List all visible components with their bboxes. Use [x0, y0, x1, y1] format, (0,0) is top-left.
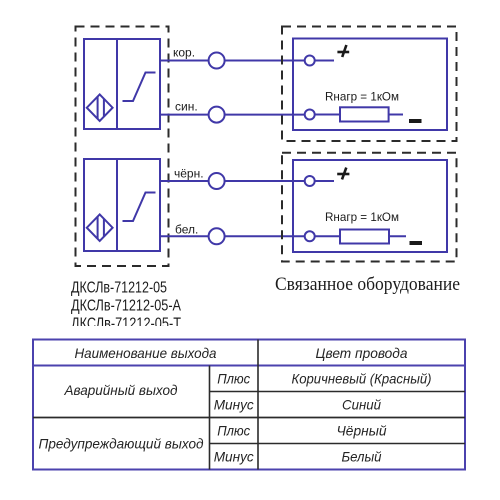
wire brown segment b — [225, 60, 305, 62]
resistor R2 — [340, 230, 389, 244]
table column divider full height — [257, 340, 259, 470]
svg-text:Минус: Минус — [214, 397, 254, 413]
terminal circle A plus — [305, 56, 315, 66]
wire A minus stub — [315, 114, 340, 116]
svg-text:син.: син. — [175, 100, 198, 114]
table row line 3 partial — [210, 443, 466, 445]
svg-text:чёрн.: чёрн. — [174, 167, 204, 181]
svg-text:бел.: бел. — [175, 223, 198, 237]
svg-text:Плюс: Плюс — [217, 371, 250, 387]
svg-text:Коричневый (Красный): Коричневый (Красный) — [292, 371, 432, 387]
sensor U1 proximity diamond — [87, 94, 113, 121]
sensor U2 hysteresis symbol — [123, 193, 156, 222]
sensor block 1+2 dashed enclosure — [76, 27, 169, 267]
connector circle blue — [209, 107, 225, 123]
svg-text:Наименование выхода: Наименование выхода — [75, 345, 217, 361]
equipment block A dashed enclosure — [282, 27, 457, 142]
table row line 2 full — [33, 417, 465, 419]
equipment block B body — [293, 160, 447, 252]
wire black segment a — [160, 180, 209, 182]
wire B after resistor — [389, 235, 406, 237]
table column divider body — [209, 366, 211, 470]
sensor U2 proximity diamond — [87, 214, 113, 241]
connector circle black — [209, 173, 225, 189]
wire blue segment a — [160, 114, 209, 116]
svg-text:Предупреждающий выход: Предупреждающий выход — [39, 436, 204, 452]
terminal circle B plus — [305, 176, 315, 186]
terminal circle A minus — [305, 110, 315, 120]
minus sign B — [410, 241, 423, 245]
wire brown segment a — [160, 60, 209, 62]
wire black segment b — [225, 180, 305, 182]
svg-text:Связанное оборудование: Связанное оборудование — [275, 274, 460, 295]
table outer frame — [33, 340, 465, 470]
svg-text:Минус: Минус — [214, 449, 254, 465]
sensor U1 diamond bar left — [97, 97, 99, 120]
table row line 1 partial — [210, 391, 466, 393]
svg-text:Цвет провода: Цвет провода — [316, 345, 408, 361]
svg-text:Аварийный выход: Аварийный выход — [64, 382, 178, 398]
wire blue segment b — [225, 114, 305, 116]
plus sign B — [337, 168, 349, 180]
connector circle white — [209, 228, 225, 244]
sensor U1 cell divider — [116, 39, 118, 129]
wire A after resistor — [389, 114, 403, 116]
svg-text:ДКСЛв-71212-05: ДКСЛв-71212-05 — [71, 280, 167, 297]
svg-text:Плюс: Плюс — [217, 423, 250, 439]
equipment block B dashed enclosure — [282, 153, 457, 262]
wire white segment b — [225, 235, 305, 237]
sensor U2 body — [84, 159, 160, 251]
resistor R1 — [340, 107, 389, 121]
svg-text:Синий: Синий — [342, 397, 381, 413]
sensor type label line 3 clipped — [71, 316, 181, 333]
table header separator line — [33, 365, 465, 367]
minus sign A — [409, 119, 422, 123]
wire B plus stub — [315, 180, 334, 182]
svg-text:Rнагр = 1кОм: Rнагр = 1кОм — [325, 90, 399, 104]
svg-text:Чёрный: Чёрный — [337, 423, 387, 439]
wire B minus stub — [315, 235, 340, 237]
sensor U1 body — [84, 39, 160, 129]
sensor U1 diamond bar right — [103, 99, 105, 117]
sensor U2 cell divider — [116, 159, 118, 251]
sensor U2 diamond bar right — [103, 219, 105, 237]
plus sign A — [337, 45, 349, 57]
wire A plus stub — [315, 60, 334, 62]
svg-text:Белый: Белый — [342, 449, 382, 465]
svg-text:Rнагр = 1кОм: Rнагр = 1кОм — [325, 210, 399, 224]
sensor U2 diamond bar left — [97, 217, 99, 240]
equipment block A body — [293, 39, 447, 131]
svg-text:кор.: кор. — [173, 46, 195, 60]
terminal circle B minus — [305, 231, 315, 241]
connector circle brown — [209, 53, 225, 69]
svg-text:ДКСЛв-71212-05-А: ДКСЛв-71212-05-А — [71, 298, 181, 315]
wire white segment a — [160, 235, 209, 237]
sensor U1 hysteresis symbol — [123, 73, 156, 102]
